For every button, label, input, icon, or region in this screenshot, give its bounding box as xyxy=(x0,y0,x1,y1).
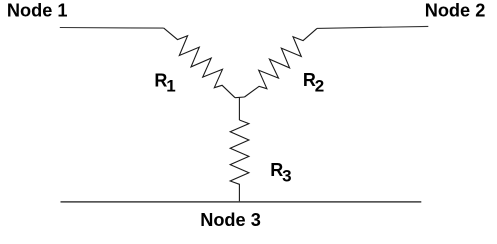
svg-text:R2: R2 xyxy=(303,70,324,95)
junction node connecting R1 R2 R3 xyxy=(235,96,245,99)
svg-text:R1: R1 xyxy=(154,71,175,96)
Node 3 bus wire xyxy=(61,201,422,203)
wire junction to R3 xyxy=(238,97,240,120)
svg-text:Node 3: Node 3 xyxy=(200,210,261,230)
resistor R1 xyxy=(164,28,235,98)
resistor R3 xyxy=(230,120,249,202)
wire from Node 1 to R1 xyxy=(60,27,164,30)
wire from Node 2 to R2 xyxy=(317,26,428,28)
svg-text:R3: R3 xyxy=(270,160,291,185)
svg-text:Node 2: Node 2 xyxy=(425,1,486,21)
svg-text:Node 1: Node 1 xyxy=(7,1,68,21)
resistor R2 xyxy=(245,28,318,97)
